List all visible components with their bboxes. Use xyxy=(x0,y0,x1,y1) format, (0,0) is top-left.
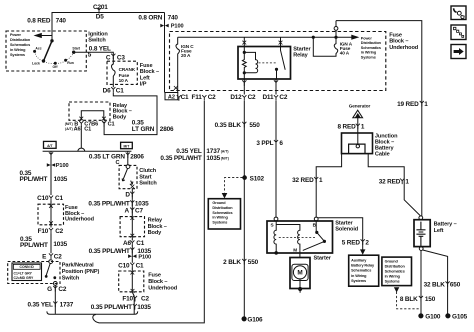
svg-text:Distribution: Distribution xyxy=(361,41,382,45)
svg-text:A6: A6 xyxy=(123,240,131,247)
svg-text:M: M xyxy=(297,270,302,277)
svg-text:C2: C2 xyxy=(54,254,62,261)
svg-text:C2: C2 xyxy=(279,94,287,101)
wire: 32 RED 1 junction block to battery xyxy=(368,154,420,216)
relay switch contact xyxy=(281,47,286,70)
svg-text:Systems: Systems xyxy=(212,220,227,224)
wire: relay block internal bridge xyxy=(81,111,104,121)
connector C1 pin C10 xyxy=(130,263,134,269)
svg-text:C2: C2 xyxy=(141,295,149,302)
relay coil feed xyxy=(243,37,245,46)
svg-text:6: 6 xyxy=(279,140,283,147)
svg-text:S102: S102 xyxy=(250,176,265,183)
fuse IGN C 20A xyxy=(176,37,180,92)
svg-text:C1: C1 xyxy=(55,195,63,202)
ground G100 xyxy=(419,314,423,318)
svg-text:Underhood: Underhood xyxy=(65,217,95,223)
svg-text:Systems: Systems xyxy=(351,279,366,283)
svg-text:Fuse: Fuse xyxy=(389,32,402,38)
svg-text:Starter: Starter xyxy=(314,255,332,261)
svg-text:in Wiring: in Wiring xyxy=(212,216,228,220)
svg-text:1: 1 xyxy=(405,179,409,186)
M/T tag xyxy=(121,142,133,148)
svg-text:Start: Start xyxy=(72,46,81,50)
svg-text:F10: F10 xyxy=(38,228,49,235)
arrow to power distribution note xyxy=(41,35,53,37)
svg-text:in Wiring: in Wiring xyxy=(351,274,367,278)
wire label 0.35 YEL 1737 xyxy=(53,302,57,308)
svg-text:Start: Start xyxy=(139,174,151,180)
svg-text:M: M xyxy=(293,248,297,253)
wire: A/T branch down, 0.35 PPL/WHT 1035 xyxy=(50,151,52,195)
svg-text:2806: 2806 xyxy=(160,126,174,133)
svg-text:G: G xyxy=(47,286,52,293)
solenoid actuator dashed link xyxy=(279,236,316,238)
svg-text:Body: Body xyxy=(113,114,128,120)
svg-text:C2=MD GRY: C2=MD GRY xyxy=(14,276,34,280)
svg-text:Acc: Acc xyxy=(35,46,41,50)
A2 tag xyxy=(165,93,178,100)
svg-text:G100: G100 xyxy=(425,313,441,320)
svg-text:in Wiring: in Wiring xyxy=(361,51,377,55)
svg-text:Lock: Lock xyxy=(32,62,40,66)
PNP switch S2 xyxy=(49,260,53,264)
wire from relay block down to A/T-M/T rail xyxy=(80,126,82,148)
connector C1 pin D6 xyxy=(111,87,115,93)
svg-text:1035: 1035 xyxy=(54,176,68,183)
svg-text:D6: D6 xyxy=(103,88,111,95)
dashed link to ground distribution note xyxy=(225,178,243,193)
svg-text:Off: Off xyxy=(53,65,59,69)
svg-text:C2: C2 xyxy=(248,94,256,101)
solenoid terminal B xyxy=(314,217,318,221)
arrow to power distribution note xyxy=(352,35,358,39)
svg-text:P100: P100 xyxy=(171,24,184,30)
ground G106 xyxy=(242,317,246,321)
fuse CRANK 10A xyxy=(112,58,116,87)
svg-text:CRANK: CRANK xyxy=(119,67,136,72)
connector pin D xyxy=(131,188,133,199)
splice S102 xyxy=(243,176,247,180)
svg-text:A2: A2 xyxy=(168,94,175,100)
svg-text:(M/T): (M/T) xyxy=(221,157,229,161)
fuse block underhood dashed box (left chain) xyxy=(38,204,64,225)
starter motor box xyxy=(290,258,310,289)
svg-text:Schematics: Schematics xyxy=(212,211,232,215)
svg-text:1737: 1737 xyxy=(60,302,74,309)
svg-text:2: 2 xyxy=(365,239,369,246)
svg-text:C3: C3 xyxy=(117,54,125,61)
svg-text:C2: C2 xyxy=(58,286,66,293)
svg-text:S: S xyxy=(271,222,274,227)
svg-text:Systems: Systems xyxy=(385,279,400,283)
relay output connectors xyxy=(244,79,276,95)
solenoid hold-in coil xyxy=(276,225,300,251)
junction bracket merging A/T and M/T branches xyxy=(47,311,138,314)
ground G105 xyxy=(446,314,450,318)
wire: M/T branch to clutch start switch, 0.35 LT GRN 2806 xyxy=(127,151,129,164)
wire 0.35 PPL/WHT 1035 xyxy=(131,246,133,263)
svg-text:19 RED: 19 RED xyxy=(397,101,419,108)
connector C2 pin G xyxy=(54,285,56,314)
nav icon: zoom out xyxy=(451,6,466,20)
svg-text:Ground: Ground xyxy=(212,201,226,205)
svg-text:1035: 1035 xyxy=(53,241,67,248)
svg-text:C1: C1 xyxy=(181,94,189,101)
svg-text:0.8 RED: 0.8 RED xyxy=(27,17,51,24)
svg-text:Ground: Ground xyxy=(385,260,399,264)
svg-text:C: C xyxy=(106,54,111,61)
svg-text:C10: C10 xyxy=(118,262,130,269)
svg-text:LT GRN: LT GRN xyxy=(132,126,155,133)
svg-text:Power: Power xyxy=(10,33,22,37)
svg-text:A6: A6 xyxy=(74,126,81,132)
svg-text:Distribution: Distribution xyxy=(212,206,233,210)
dashed link 8 BLK to ground note xyxy=(397,292,420,309)
connector C2 pin E xyxy=(49,253,53,259)
connector C3 pin C xyxy=(111,54,115,60)
nav icon: zoom in xyxy=(451,25,466,40)
svg-text:C1: C1 xyxy=(116,88,124,95)
junction block battery cable xyxy=(342,133,373,154)
relay block body dashed box (right chain) xyxy=(120,217,144,237)
svg-text:Systems: Systems xyxy=(10,53,25,57)
svg-text:Auxiliary: Auxiliary xyxy=(351,258,367,262)
wire: 0.35 BLK 550 relay coil ground xyxy=(243,101,245,317)
svg-text:Switch: Switch xyxy=(139,181,157,187)
svg-text:PPL/WHT: PPL/WHT xyxy=(20,242,48,249)
wire: 32 BLK 650 battery negative to G105 xyxy=(423,250,448,314)
wire: ignition START output 0.8 YEL 5 xyxy=(74,52,114,58)
svg-text:0.35 BLK: 0.35 BLK xyxy=(215,122,242,129)
connector C201 xyxy=(97,8,101,14)
svg-text:Underhood: Underhood xyxy=(389,45,419,51)
wire label 0.8 RED 740 xyxy=(27,17,66,24)
wire label 2 BLK 550 xyxy=(242,259,246,265)
svg-text:Block –: Block – xyxy=(148,224,167,230)
wire: battery negative to G100 xyxy=(420,251,422,314)
wire labels 0.35 YEL 1737 (A/T), 0.35 PPL/WHT 1035 (M/T) xyxy=(160,148,228,162)
svg-text:C1: C1 xyxy=(136,262,144,269)
svg-text:in Wiring: in Wiring xyxy=(385,274,401,278)
svg-text:F11: F11 xyxy=(191,94,202,101)
connector C2 pin F10 xyxy=(133,296,137,302)
fuse block left I/P dashed box xyxy=(107,61,137,84)
svg-text:Battery Relay: Battery Relay xyxy=(351,264,375,268)
wire: 5 RED 2 to auxiliary battery relay xyxy=(318,218,363,250)
svg-text:Underhood: Underhood xyxy=(148,286,178,292)
svg-text:0.35 LT GRN: 0.35 LT GRN xyxy=(89,154,125,161)
internal bus wire of fuse block xyxy=(178,36,353,38)
svg-text:I/P: I/P xyxy=(140,81,147,87)
svg-text:Block –: Block – xyxy=(148,279,167,285)
svg-text:0.35 PPL/WHT: 0.35 PPL/WHT xyxy=(89,248,130,255)
svg-text:1: 1 xyxy=(424,101,428,108)
clutch switch S3 xyxy=(126,165,130,169)
svg-text:C7: C7 xyxy=(135,207,143,214)
svg-text:C2: C2 xyxy=(55,228,63,235)
svg-text:E: E xyxy=(42,254,47,261)
svg-text:1035: 1035 xyxy=(137,304,151,311)
svg-text:5 RED: 5 RED xyxy=(342,239,361,246)
svg-text:C201: C201 xyxy=(93,4,108,11)
svg-text:P100: P100 xyxy=(138,255,151,261)
wire 0.35 PPL/WHT 1035 xyxy=(50,234,52,254)
connector C1 pin C10 xyxy=(49,196,53,202)
svg-text:150: 150 xyxy=(425,296,436,303)
svg-text:in Wiring: in Wiring xyxy=(10,48,26,52)
svg-text:740: 740 xyxy=(56,17,67,24)
terminal M xyxy=(293,248,297,253)
clutch start switch dashed box xyxy=(119,165,137,188)
wire 0.35 PPL/WHT 1035 xyxy=(130,200,134,206)
wire: jog from D6 to relay block pin C1, 0.35 LT GRN 2806 xyxy=(104,93,157,135)
svg-text:10 A: 10 A xyxy=(119,78,129,83)
svg-text:Schematics: Schematics xyxy=(10,43,30,47)
grommet P100 xyxy=(47,163,55,167)
svg-text:Generator: Generator xyxy=(349,103,371,108)
svg-text:Block –: Block – xyxy=(140,69,159,75)
svg-text:32 RED: 32 RED xyxy=(379,179,401,186)
svg-text:1: 1 xyxy=(319,177,323,184)
wire: 0.8 ORN 740 from C201 xyxy=(164,13,166,93)
svg-text:Schematics: Schematics xyxy=(351,269,371,273)
svg-text:C10: C10 xyxy=(37,195,49,202)
wire 8 RED 1 generator to junction block xyxy=(357,118,359,144)
solenoid terminal S xyxy=(274,217,278,221)
svg-text:D11: D11 xyxy=(262,94,274,101)
svg-text:0.35 YEL: 0.35 YEL xyxy=(27,302,53,309)
svg-text:740: 740 xyxy=(168,14,179,21)
relay actuator dashed link xyxy=(259,62,278,64)
svg-text:C2: C2 xyxy=(208,94,216,101)
svg-text:Cable: Cable xyxy=(375,152,390,158)
svg-text:A/T: A/T xyxy=(47,144,53,148)
relay block body dashed box xyxy=(69,102,110,120)
relay switch feed xyxy=(280,37,282,46)
svg-text:550: 550 xyxy=(248,259,259,266)
battery left xyxy=(419,216,423,220)
svg-text:8 RED: 8 RED xyxy=(338,124,357,131)
svg-text:8 BLK: 8 BLK xyxy=(400,296,418,303)
svg-text:C1: C1 xyxy=(84,126,91,132)
svg-text:(A/T): (A/T) xyxy=(65,127,73,131)
svg-text:Solenoid: Solenoid xyxy=(335,227,359,233)
svg-text:G105: G105 xyxy=(452,313,468,320)
svg-text:(A/T): (A/T) xyxy=(221,150,229,154)
svg-text:CONN ID: CONN ID xyxy=(20,265,35,269)
ignition switch dashed box xyxy=(6,31,86,71)
wire label 0.35 PPL/WHT 1035 xyxy=(133,304,137,310)
svg-text:650: 650 xyxy=(450,281,461,288)
svg-text:Relay: Relay xyxy=(293,52,308,58)
fuse block underhood dashed box (top) xyxy=(170,32,386,91)
solenoid switch contact xyxy=(315,221,317,232)
svg-text:32 BLK: 32 BLK xyxy=(424,281,446,288)
park/neutral position switch dashed box xyxy=(8,262,60,284)
svg-text:0.8 YEL: 0.8 YEL xyxy=(89,45,111,52)
svg-text:Switch: Switch xyxy=(62,275,80,281)
svg-text:Clutch: Clutch xyxy=(139,168,156,174)
svg-text:(M/T): (M/T) xyxy=(65,122,73,126)
wire: 32 RED 1 junction block to solenoid B xyxy=(316,154,341,218)
svg-text:P100: P100 xyxy=(56,163,69,169)
svg-text:A: A xyxy=(125,207,130,214)
connector C2 pin F10 xyxy=(49,228,53,234)
svg-text:Schematics: Schematics xyxy=(361,46,381,50)
svg-text:D5: D5 xyxy=(96,14,104,21)
svg-text:1: 1 xyxy=(361,124,365,131)
connector C7 pin A xyxy=(130,208,134,214)
svg-text:Switch: Switch xyxy=(88,37,106,43)
connector pins B (M/T) A6 (A/T) C7B6 C1 xyxy=(79,121,83,127)
ground distribution reference box (right) xyxy=(382,257,412,286)
svg-text:PPL/WHT: PPL/WHT xyxy=(20,176,48,183)
starter motor M xyxy=(292,264,308,280)
svg-text:F10: F10 xyxy=(122,295,133,302)
wire: 3 PPL 6 starter relay to solenoid S xyxy=(275,101,277,217)
solenoid pull-in coil xyxy=(274,221,276,253)
svg-text:40 A: 40 A xyxy=(340,50,350,55)
nav icon: next page arrow xyxy=(451,45,466,59)
svg-text:2 BLK: 2 BLK xyxy=(223,259,241,266)
svg-text:Block –: Block – xyxy=(389,39,408,45)
svg-text:D12: D12 xyxy=(230,94,242,101)
connector row C1 F11 C2 D12 C2 D11 C2 xyxy=(177,95,181,101)
starter relay box xyxy=(238,47,291,80)
svg-text:Systems: Systems xyxy=(361,56,376,60)
svg-text:0.8 ORN: 0.8 ORN xyxy=(138,14,162,21)
svg-text:Power: Power xyxy=(361,36,373,40)
svg-text:Body: Body xyxy=(148,230,163,236)
svg-text:Distribution: Distribution xyxy=(10,38,31,42)
relay coil + resistor xyxy=(242,47,246,80)
svg-text:Fuse: Fuse xyxy=(148,272,161,278)
rail wire xyxy=(43,150,132,152)
fuse IGN A 40A and battery feed xyxy=(313,21,337,57)
svg-text:C1: C1 xyxy=(108,122,115,128)
svg-text:C1: C1 xyxy=(136,240,144,247)
svg-text:20 A: 20 A xyxy=(181,53,191,58)
svg-text:Position (PNP): Position (PNP) xyxy=(62,269,100,275)
svg-text:Left: Left xyxy=(434,228,444,234)
auxiliary battery relay reference box xyxy=(349,255,379,286)
CONN ID legend xyxy=(12,263,42,281)
svg-text:Starter: Starter xyxy=(335,221,353,227)
grommet P100 xyxy=(128,254,136,258)
svg-text:550: 550 xyxy=(249,122,260,129)
svg-text:0.35 PPL/WHT: 0.35 PPL/WHT xyxy=(91,304,132,311)
svg-text:Park/Neutral: Park/Neutral xyxy=(62,263,94,269)
svg-text:5: 5 xyxy=(88,51,92,58)
generator xyxy=(349,103,371,108)
wire: 19 RED 1 battery feed xyxy=(336,21,422,216)
ground distribution reference box xyxy=(208,199,240,229)
svg-text:M/T: M/T xyxy=(123,145,130,149)
svg-text:Schematics: Schematics xyxy=(385,270,405,274)
connector C1 pin A6 xyxy=(130,240,134,246)
note: Power Distribution Schematics in Wiring Systems xyxy=(10,33,31,57)
svg-text:G106: G106 xyxy=(247,317,263,324)
svg-text:Run: Run xyxy=(67,61,74,65)
svg-text:1035: 1035 xyxy=(206,155,220,162)
svg-text:32 RED: 32 RED xyxy=(292,177,314,184)
svg-text:Battery –: Battery – xyxy=(434,222,457,228)
svg-text:Distribution: Distribution xyxy=(385,265,406,269)
fuse block underhood dashed box (right chain) xyxy=(119,271,144,292)
svg-text:C1=LT GRY: C1=LT GRY xyxy=(14,271,33,275)
wire: top bus 0.8 RED / C201 xyxy=(52,13,165,41)
ignition switch S1 xyxy=(51,40,53,42)
svg-text:3 PPL: 3 PPL xyxy=(256,140,273,147)
svg-text:2806: 2806 xyxy=(130,154,144,161)
wire: merged crank request to F11, second bracket xyxy=(99,101,205,323)
starter solenoid box xyxy=(267,221,333,253)
svg-text:D: D xyxy=(125,191,130,198)
svg-text:0.35 PPL/WHT: 0.35 PPL/WHT xyxy=(160,155,201,162)
A/T tag xyxy=(44,141,57,148)
svg-text:Relay: Relay xyxy=(148,217,163,223)
